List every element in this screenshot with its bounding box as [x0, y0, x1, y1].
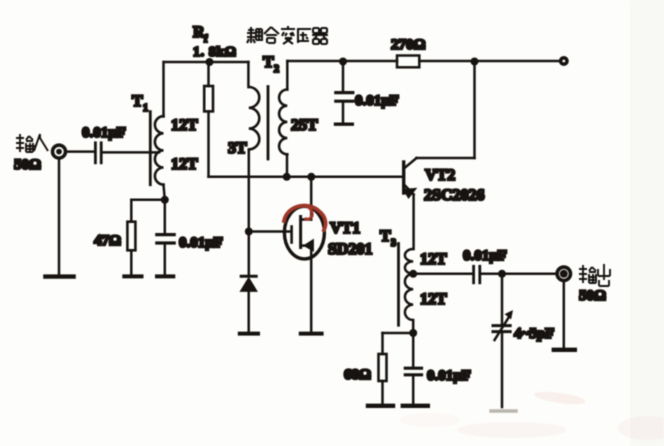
svg-text:12T: 12T — [420, 291, 447, 308]
ground: 68ohm — [368, 404, 393, 408]
node: VT1 gate junction — [245, 228, 253, 236]
node: VT1 drain junction — [307, 173, 315, 181]
node: T3 bottom — [409, 329, 417, 337]
wire: riser to VT2 collector — [473, 62, 476, 159]
label T3 — [380, 228, 396, 249]
svg-text:0.01μF: 0.01μF — [355, 93, 399, 109]
ground: bypass cap bar — [336, 122, 353, 125]
ground: varcap faint — [491, 409, 516, 412]
svg-text:270Ω: 270Ω — [391, 37, 426, 53]
connector: output jack — [557, 267, 570, 280]
svg-text:2SC2026: 2SC2026 — [424, 187, 484, 204]
capacitor C variable 4~5pF — [493, 274, 512, 407]
svg-text:f: f — [204, 34, 208, 45]
wire: input jack to ground — [58, 158, 61, 274]
svg-text:12T: 12T — [420, 251, 447, 268]
svg-text:T: T — [380, 228, 391, 245]
svg-text:3: 3 — [391, 238, 396, 249]
label Rf designator — [193, 24, 208, 45]
transformer T1 winding 12T+12T — [155, 116, 164, 184]
ground: 47ohm — [124, 274, 141, 278]
wire: 3T bottom down through mid net to diode node — [248, 150, 251, 275]
wire: T1 bottom riser — [164, 185, 165, 200]
svg-text:50Ω: 50Ω — [14, 157, 41, 173]
node: bypass cap junction — [339, 58, 347, 66]
transformer T2 primary 3T — [249, 87, 259, 149]
svg-text:SD201: SD201 — [328, 241, 372, 258]
wire: 25T bottom riser — [286, 155, 289, 177]
ground: diode — [240, 332, 258, 336]
wire: T3 bottom to 68ohm branch — [383, 333, 414, 354]
label T2 — [263, 54, 279, 75]
wire: 25T top riser — [286, 61, 289, 90]
resistor Rf — [204, 62, 213, 177]
capacitor C source 0.01uF — [157, 200, 174, 274]
svg-text:1. 8kΩ: 1. 8kΩ — [193, 45, 237, 60]
wire: top-right supply net 25T top to output terminal — [287, 60, 558, 63]
svg-text:0.01μF: 0.01μF — [82, 125, 126, 141]
svg-text:0.01μF: 0.01μF — [463, 248, 507, 264]
wire: output jack to ground — [563, 281, 566, 347]
svg-text:50Ω: 50Ω — [579, 288, 606, 304]
wire: T3 tap to coupling cap — [413, 273, 472, 276]
ground: output jack — [554, 348, 575, 352]
svg-text:0.01μF: 0.01μF — [179, 235, 223, 251]
label output chinese 输出 — [579, 264, 610, 286]
ground: input jack — [45, 274, 73, 278]
svg-text:68Ω: 68Ω — [344, 367, 371, 383]
resistor 47ohm — [127, 222, 135, 274]
node: T3 tap — [409, 270, 417, 278]
resistor 270ohm — [397, 56, 419, 68]
wire: input cap to T1 tap — [103, 151, 159, 154]
resistor 68ohm — [379, 354, 387, 403]
svg-text:VT1: VT1 — [330, 220, 360, 237]
svg-text:1: 1 — [143, 103, 148, 114]
diode D1 — [241, 276, 257, 331]
svg-text:T: T — [263, 54, 274, 71]
svg-text:12T: 12T — [171, 117, 198, 134]
label input chinese 输入 — [16, 134, 48, 152]
connector: input jack — [53, 145, 66, 158]
terminal: supply output small ring — [561, 58, 567, 64]
ground: source cap — [157, 274, 173, 278]
wire: junction to 47ohm — [131, 200, 165, 222]
wire: coupling cap to output connector — [481, 273, 556, 276]
ground: VT1 source — [301, 332, 322, 336]
node: Rf top junction — [206, 58, 214, 66]
transformer T3 winding 12T+12T — [405, 249, 413, 333]
mosfet U VT1 SD201 — [284, 177, 324, 331]
node: 25T bottom junction — [283, 173, 291, 181]
capacitor C emitter 0.01uF — [405, 333, 421, 403]
svg-text:VT2: VT2 — [425, 167, 455, 184]
svg-text:3T: 3T — [228, 140, 247, 157]
wire: gate lead — [249, 230, 291, 233]
svg-text:47Ω: 47Ω — [94, 233, 121, 249]
svg-text:4~5pF: 4~5pF — [514, 326, 554, 342]
transformer T3 core — [397, 244, 400, 326]
wire: 3T top riser — [247, 62, 250, 87]
capacitor C bypass 0.01uF top — [336, 62, 353, 123]
transformer T2 secondary 25T — [279, 90, 287, 155]
scan smudges (decorative) — [400, 0, 664, 446]
red marker arc over VT1 — [284, 206, 326, 230]
svg-text:12T: 12T — [171, 156, 198, 173]
transistor Q VT2 — [404, 158, 475, 249]
svg-text:T: T — [132, 93, 143, 110]
svg-text:25T: 25T — [291, 117, 318, 134]
wire: top-left net T1 top to 3T top — [164, 61, 248, 64]
label title chinese 耦合变压器 — [247, 26, 328, 44]
capacitor C input 0.01uF — [66, 143, 101, 163]
node: VT2 collector riser junction — [471, 58, 479, 66]
node: varcap junction — [498, 270, 506, 278]
capacitor C coupling 0.01uF output — [474, 266, 480, 283]
label T1 — [132, 93, 148, 114]
svg-text:2: 2 — [274, 64, 279, 75]
transformer T2 core — [267, 87, 270, 160]
transformer T1 core — [149, 112, 152, 185]
wire: mid net Rf bottom to VT2 base — [209, 176, 403, 179]
ground: emitter cap — [403, 404, 428, 408]
wire: T1 spine top riser — [162, 62, 165, 117]
svg-text:0.01μF: 0.01μF — [427, 368, 471, 384]
node: T1 bottom junction — [161, 196, 169, 204]
